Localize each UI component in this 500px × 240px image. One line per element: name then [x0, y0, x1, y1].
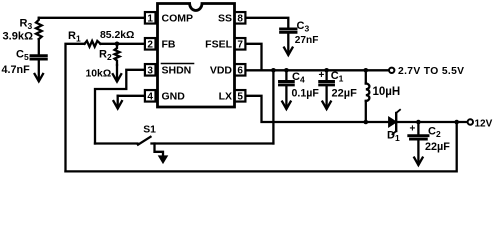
- pin 8 box: [235, 12, 246, 23]
- svg-text:3.9kΩ: 3.9kΩ: [3, 30, 34, 42]
- junction C4 VDD: [284, 68, 289, 73]
- diode D1: [389, 110, 400, 134]
- svg-text:1: 1: [147, 14, 153, 25]
- svg-text:22µF: 22µF: [425, 141, 450, 153]
- svg-text:FSEL: FSEL: [205, 39, 232, 51]
- junction L1 top VDD: [364, 68, 369, 73]
- svg-text:10kΩ: 10kΩ: [86, 69, 112, 80]
- svg-text:LX: LX: [219, 91, 232, 103]
- wire SS pin8 to C3: [246, 18, 288, 28]
- ground at S1: [155, 144, 168, 164]
- svg-text:5: 5: [237, 92, 243, 103]
- wire to C2: [417, 122, 419, 134]
- capacitor C5: [31, 56, 46, 59]
- wire S1 riser to VDD line: [272, 70, 274, 143]
- svg-text:FB: FB: [162, 39, 176, 51]
- wire output riser and bottom feedback rail: [66, 122, 457, 171]
- pin 7 box: [235, 38, 246, 50]
- svg-text:12V: 12V: [475, 118, 493, 129]
- pin 5 box: [235, 90, 246, 102]
- svg-text:GND: GND: [162, 91, 186, 103]
- wire VDD to C1: [325, 70, 327, 81]
- pin 6 box: [235, 64, 246, 76]
- ground at GND pin: [114, 96, 122, 109]
- svg-text:3: 3: [147, 66, 153, 77]
- wire FB pin2 to R1: [100, 43, 144, 45]
- capacitor C2: [409, 136, 428, 139]
- ground below C5: [35, 60, 43, 82]
- ground below C1: [322, 85, 330, 109]
- resistor R3: [36, 18, 42, 39]
- svg-text:85.2kΩ: 85.2kΩ: [100, 30, 134, 41]
- wire FSEL pin7 to VDD line: [246, 44, 262, 71]
- ground below C4: [282, 85, 290, 109]
- svg-text:SS: SS: [218, 13, 232, 25]
- IC U1 body: [158, 4, 235, 108]
- ground below C2: [414, 139, 422, 165]
- svg-text:+: +: [319, 70, 325, 81]
- inductor L1 10uH: [366, 70, 370, 122]
- svg-text:+: +: [410, 123, 416, 134]
- svg-text:2: 2: [147, 40, 153, 51]
- switch S1: [95, 137, 273, 145]
- svg-text:7: 7: [237, 40, 243, 51]
- svg-text:S1: S1: [143, 124, 156, 135]
- ground below R2: [113, 65, 121, 82]
- svg-text:4.7nF: 4.7nF: [2, 64, 31, 76]
- svg-text:0.1µF: 0.1µF: [292, 87, 320, 99]
- svg-text:22µF: 22µF: [332, 87, 358, 99]
- wire GND pin4 to ground: [118, 95, 145, 97]
- pin 2 box: [145, 38, 156, 50]
- ground below C3: [284, 33, 292, 56]
- junction output riser: [454, 120, 459, 125]
- junction FB R2: [115, 42, 120, 47]
- svg-text:8: 8: [237, 14, 243, 25]
- svg-text:6: 6: [237, 66, 243, 77]
- pin label SHDN: [162, 64, 194, 77]
- pin 4 box: [145, 90, 156, 102]
- svg-text:VDD: VDD: [210, 65, 233, 77]
- svg-text:27nF: 27nF: [295, 35, 319, 46]
- wire COMP pin1 to R3: [39, 17, 145, 19]
- capacitor C3: [281, 29, 296, 32]
- capacitor C1: [320, 82, 334, 85]
- svg-text:10µH: 10µH: [373, 86, 401, 98]
- resistor R1: [85, 41, 101, 47]
- svg-text:SHDN: SHDN: [162, 65, 192, 77]
- junction C1 VDD: [324, 68, 329, 73]
- junction L1 bottom LX line: [364, 120, 369, 125]
- svg-text:COMP: COMP: [162, 13, 194, 25]
- pin 3 box: [145, 64, 156, 76]
- junction C2 top: [416, 120, 421, 125]
- wire VDD pin6 to input terminal: [246, 69, 389, 71]
- wire SHDN pin3 to S1: [95, 70, 145, 144]
- wire R3 to C5: [38, 39, 40, 54]
- resistor R2: [115, 44, 120, 65]
- wire D1 to 12V terminal: [396, 121, 467, 123]
- wire R1 left to bottom rail: [66, 44, 85, 172]
- svg-text:4: 4: [147, 92, 153, 103]
- wire VDD to C4: [285, 70, 287, 81]
- capacitor C4: [280, 82, 294, 85]
- pin 1 box: [145, 12, 156, 23]
- node 12V terminal: [468, 119, 473, 124]
- junction S1 riser VDD: [271, 68, 276, 73]
- node 2.7V TO 5.5V terminal: [389, 68, 394, 73]
- wire LX pin5 to D1: [246, 96, 389, 122]
- svg-text:2.7V TO 5.5V: 2.7V TO 5.5V: [398, 66, 464, 77]
